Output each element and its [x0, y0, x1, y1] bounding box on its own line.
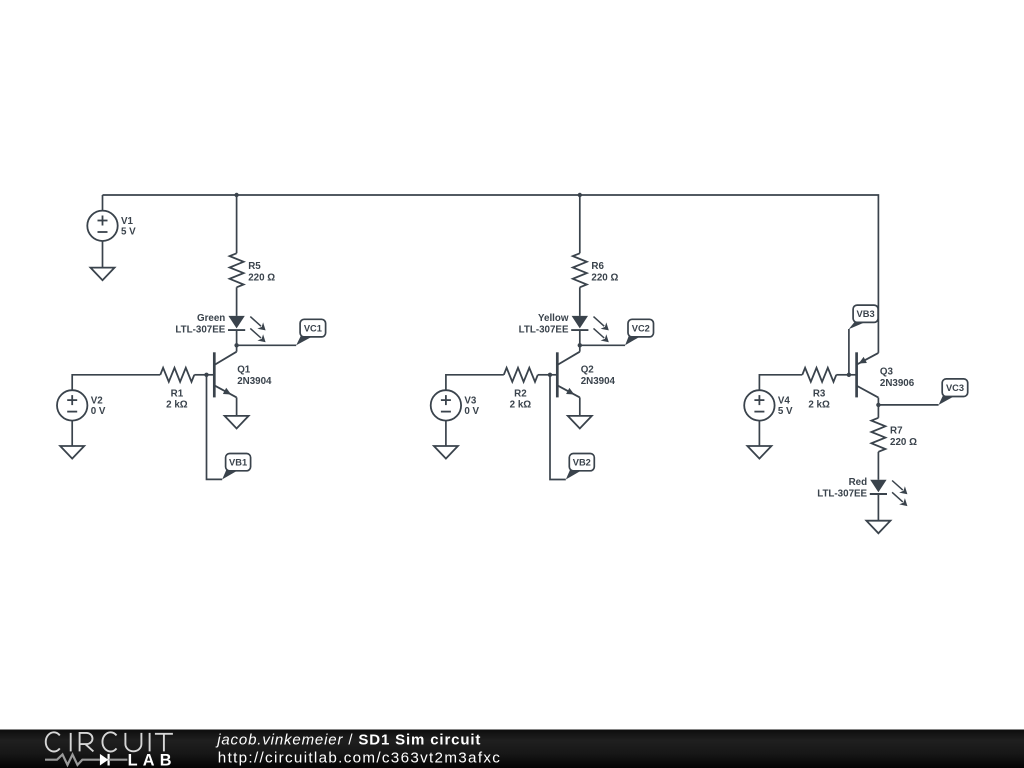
net flag VB2	[566, 469, 582, 480]
svg-text:Q3: Q3	[880, 367, 894, 378]
wire collector node to VC2 flag	[580, 344, 625, 346]
wire rail to R5	[236, 195, 238, 253]
ground below Q1 emitter	[225, 416, 249, 429]
wire base junction down to VB1 flag	[207, 375, 223, 480]
svg-text:2 kΩ: 2 kΩ	[166, 400, 188, 411]
resistor R5	[230, 253, 244, 287]
svg-text:VC1: VC1	[304, 323, 322, 333]
svg-text:VC3: VC3	[946, 383, 964, 393]
transistor Q2 2N3904	[550, 352, 616, 398]
LED Yellow LTL-307EE	[572, 316, 588, 329]
voltage source V4 5 V	[744, 390, 774, 420]
node collector junction VC2	[578, 343, 582, 347]
wire collector node to VC1 flag	[237, 344, 297, 346]
svg-text:220 Ω: 220 Ω	[591, 272, 618, 283]
resistor R1	[160, 368, 194, 382]
svg-text:Q2: Q2	[581, 365, 595, 376]
wire LED cathode to collector node	[579, 330, 581, 352]
svg-text:Yellow: Yellow	[538, 313, 569, 324]
svg-text:VB3: VB3	[857, 309, 875, 319]
svg-text:VC2: VC2	[632, 323, 650, 333]
wire V2 to R1	[72, 375, 160, 390]
resistor R3	[802, 368, 836, 382]
node Q3 base junction	[847, 373, 851, 377]
svg-text:2N3904: 2N3904	[237, 376, 272, 387]
transistor Q3 2N3906	[849, 352, 915, 397]
resistor R7	[871, 418, 885, 452]
svg-text:Green: Green	[197, 313, 225, 324]
wire node to R7	[877, 405, 879, 418]
wire collector node to VC3 flag	[878, 404, 938, 406]
wire R5 to LED anode	[236, 287, 238, 316]
wire R6 to LED anode	[579, 287, 581, 316]
CircuitLab logo wordmark CIRCUIT	[46, 732, 173, 751]
net flag VC1	[296, 335, 312, 345]
ground below V4	[747, 446, 771, 459]
svg-text:0 V: 0 V	[464, 406, 479, 417]
wire V1 bottom stub	[102, 241, 104, 268]
svg-text:http://circuitlab.com/c363vt2m: http://circuitlab.com/c363vt2m3afxc	[218, 749, 501, 766]
ground below V2	[60, 446, 84, 459]
wire Q3 collector down to node	[877, 398, 879, 405]
node Q3 collector junction VC3	[876, 403, 880, 407]
svg-text:R7: R7	[890, 426, 903, 437]
svg-text:VB1: VB1	[229, 457, 247, 467]
svg-text:2N3906: 2N3906	[880, 378, 915, 389]
svg-text:V4: V4	[778, 395, 791, 406]
wire R1 to Q1 base	[194, 374, 206, 376]
CircuitLab logo schematic: resistor	[45, 755, 100, 765]
voltage source V1 5 V	[87, 211, 117, 241]
voltage source V2 0 V	[57, 390, 87, 420]
footer bar	[0, 730, 1024, 768]
wire R2 to Q2 base	[538, 374, 550, 376]
svg-text:R3: R3	[813, 389, 826, 400]
resistor R2	[504, 368, 538, 382]
svg-text:R5: R5	[248, 261, 261, 272]
svg-text:2 kΩ: 2 kΩ	[808, 400, 830, 411]
ground below V3	[434, 446, 458, 459]
svg-text:R6: R6	[591, 261, 604, 272]
net flag VB1	[222, 469, 237, 480]
wire R3 to Q3 base	[836, 374, 849, 376]
svg-text:V2: V2	[91, 395, 104, 406]
wire R7 to LED anode	[877, 452, 879, 480]
wire V3 bottom stub	[445, 421, 447, 446]
node Q2 base junction	[548, 373, 552, 377]
svg-text:2 kΩ: 2 kΩ	[510, 400, 532, 411]
wire V3 to R2	[446, 375, 504, 390]
node Q1 base junction	[204, 373, 208, 377]
ground below Q2 emitter	[568, 416, 592, 429]
svg-text:V1: V1	[121, 216, 134, 227]
net flag VC2	[625, 335, 640, 345]
wire V2 bottom stub	[71, 421, 73, 446]
svg-text:220 Ω: 220 Ω	[890, 437, 917, 448]
ground below V1	[91, 268, 115, 281]
svg-text:VB2: VB2	[573, 457, 591, 467]
svg-text:Red: Red	[849, 477, 868, 488]
svg-text:2N3904: 2N3904	[581, 376, 616, 387]
transistor Q1 2N3904	[207, 352, 273, 398]
wire LED cathode to collector node	[236, 330, 238, 352]
wire V4 to R3	[759, 375, 802, 390]
svg-text:5 V: 5 V	[121, 226, 136, 237]
LED Green LTL-307EE	[228, 316, 244, 329]
wire base junction up to VB3 flag	[848, 329, 850, 375]
svg-text:220 Ω: 220 Ω	[248, 272, 275, 283]
node rail junction at R6	[578, 193, 582, 197]
svg-text:Q1: Q1	[237, 365, 251, 376]
svg-text:LTL-307EE: LTL-307EE	[519, 324, 569, 335]
net flag VB3	[849, 305, 879, 329]
node rail junction at R5	[234, 193, 238, 197]
wire Q1 emitter to ground	[236, 397, 238, 416]
net flag VC3	[939, 395, 955, 405]
svg-text:5 V: 5 V	[778, 406, 793, 417]
svg-text:R1: R1	[171, 389, 184, 400]
voltage source V3 0 V	[431, 390, 461, 420]
svg-text:R2: R2	[514, 389, 527, 400]
wire Q2 emitter to ground	[579, 397, 581, 416]
node collector junction VC1	[234, 343, 238, 347]
svg-text:LTL-307EE: LTL-307EE	[175, 324, 225, 335]
svg-text:LTL-307EE: LTL-307EE	[817, 489, 867, 500]
LED Red LTL-307EE	[870, 480, 886, 493]
wire 5V top rail from V1 across to Q3 emitter drop	[103, 195, 879, 353]
ground below red LED	[866, 521, 890, 534]
wire V4 bottom stub	[758, 421, 760, 446]
resistor R6	[573, 253, 587, 287]
wire base junction down to VB2 flag	[550, 375, 566, 480]
svg-text:LAB: LAB	[128, 751, 177, 768]
wire rail to R6	[579, 195, 581, 253]
svg-text:jacob.vinkemeier / SD1 Sim cir: jacob.vinkemeier / SD1 Sim circuit	[215, 731, 481, 748]
svg-text:0 V: 0 V	[91, 406, 106, 417]
wire LED cathode to ground	[877, 494, 879, 521]
wire V1 top stub	[102, 195, 104, 211]
CircuitLab logo schematic: diode	[100, 754, 128, 766]
svg-text:V3: V3	[464, 395, 477, 406]
